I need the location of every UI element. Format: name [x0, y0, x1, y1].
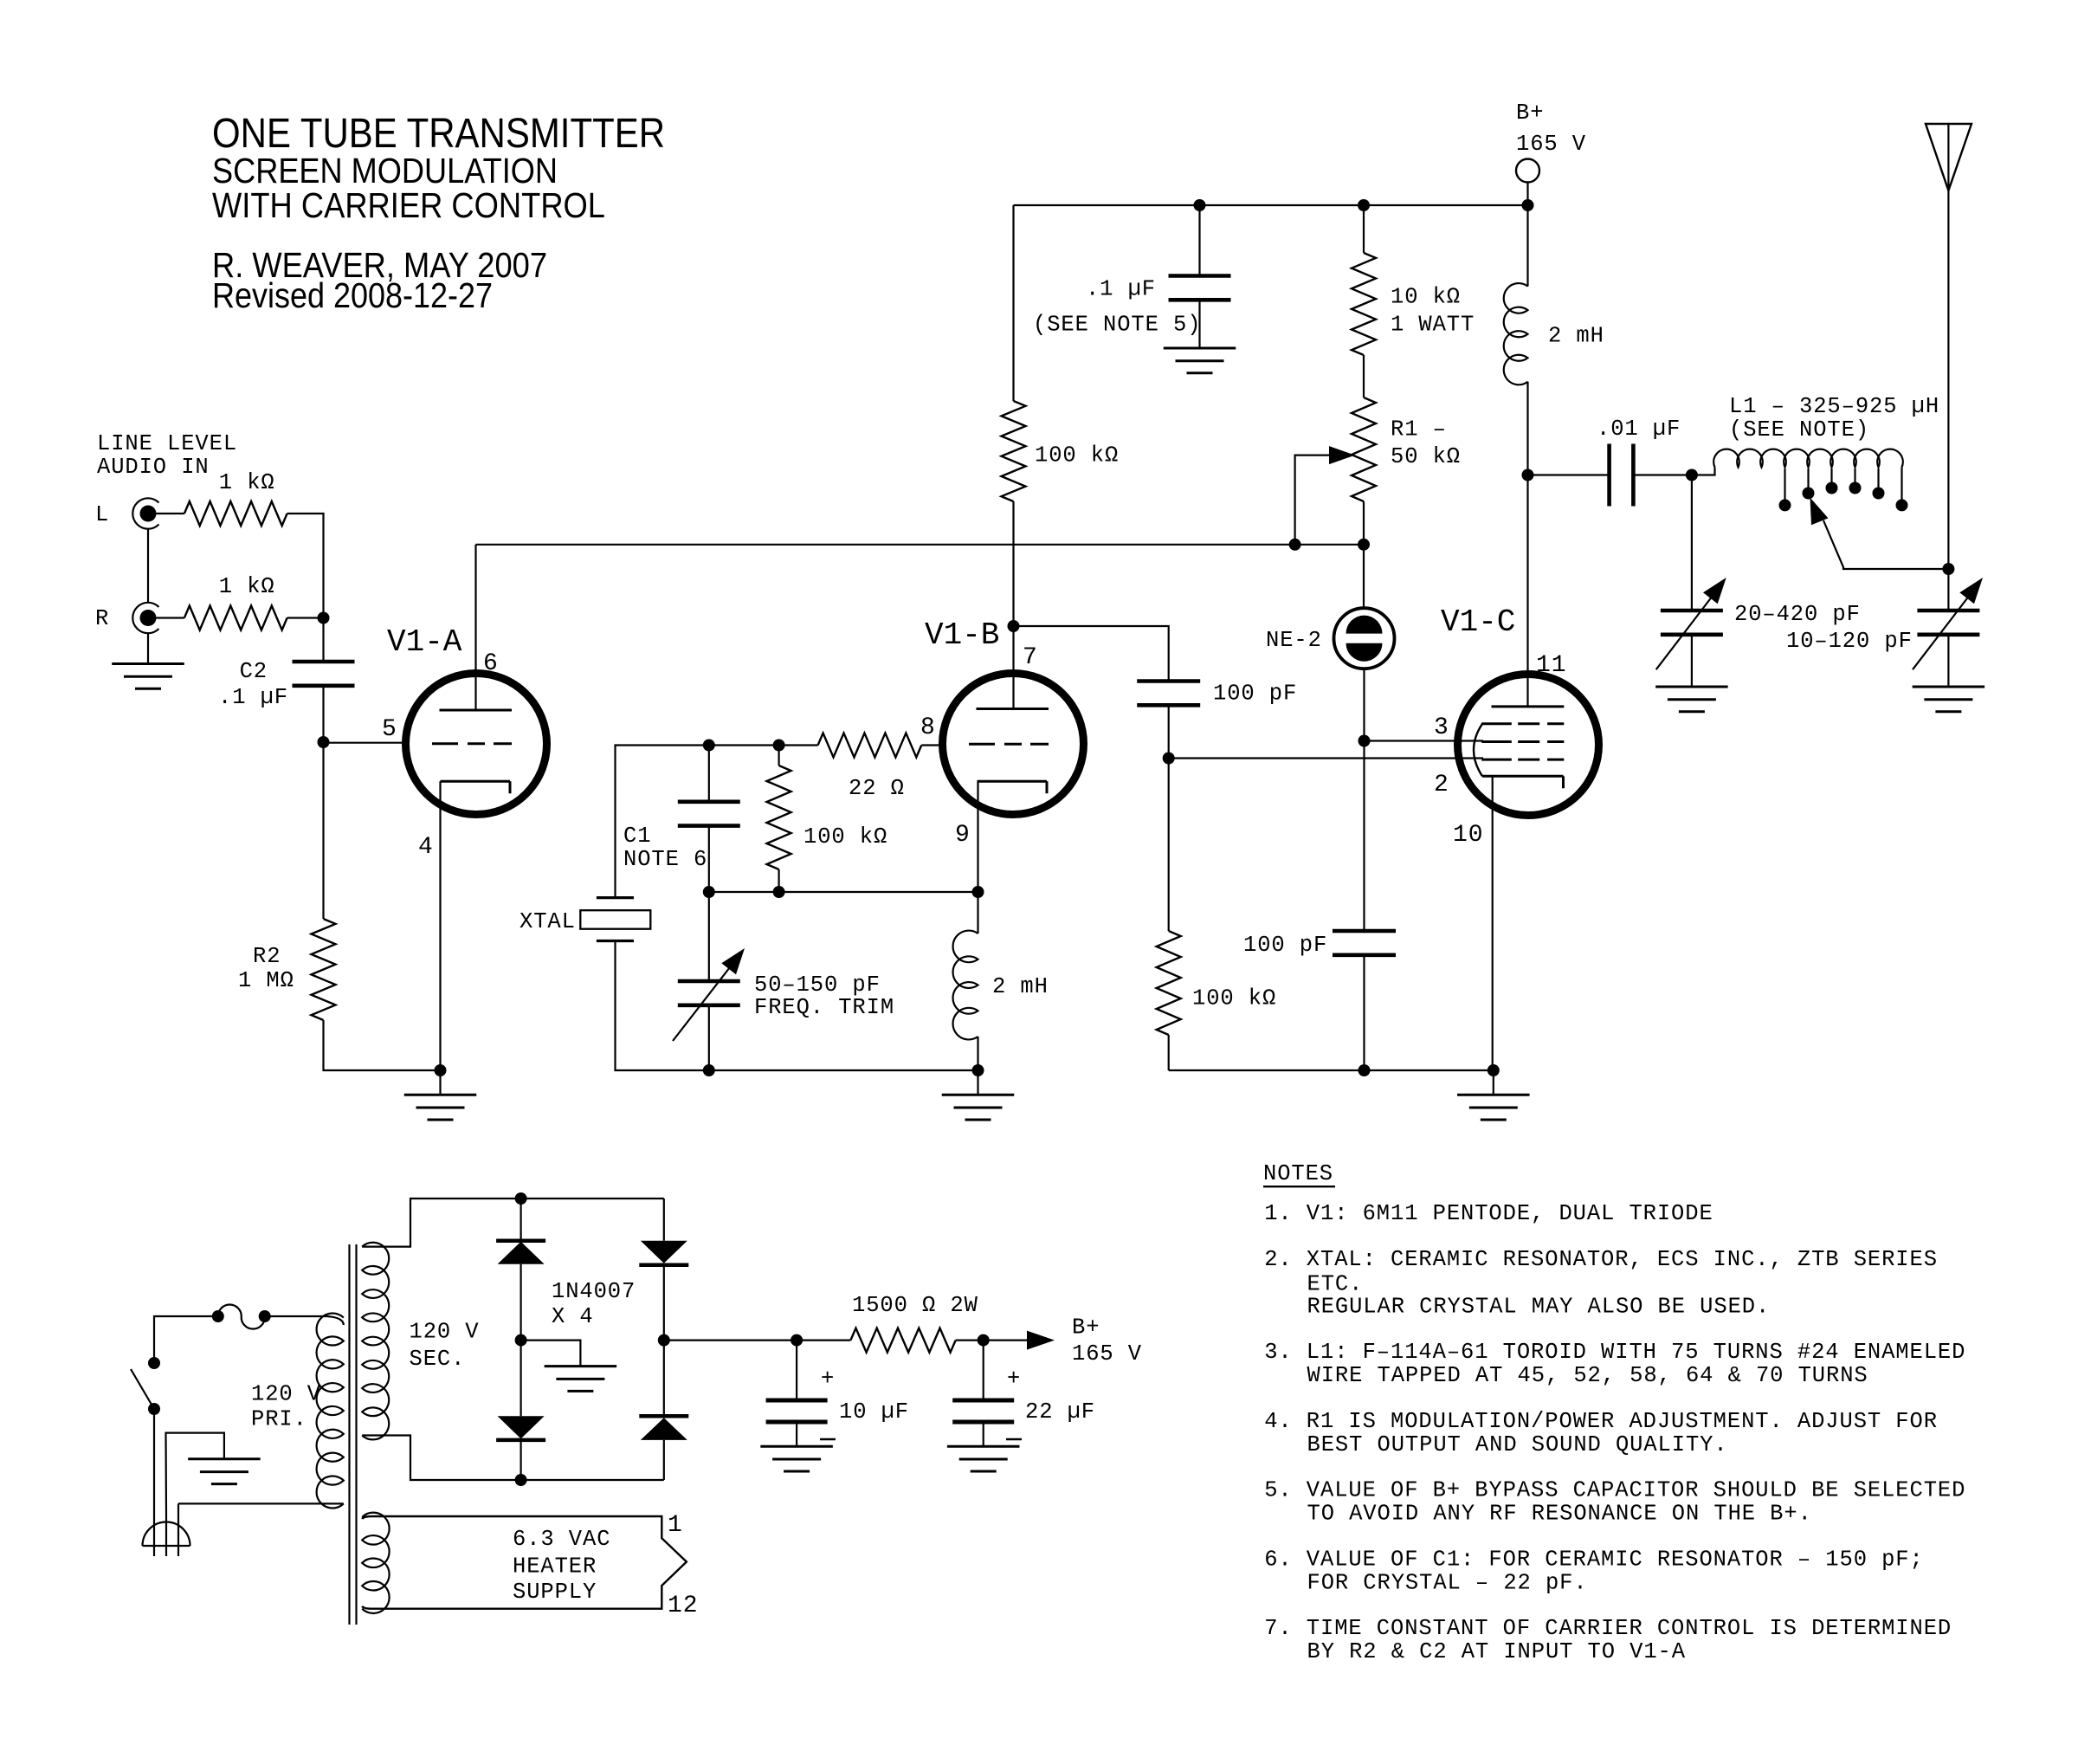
wire junction to R2 — [322, 742, 324, 919]
svg-text:1 kΩ: 1 kΩ — [219, 574, 275, 599]
fuse — [212, 1305, 271, 1329]
svg-text:R1 –: R1 – — [1391, 417, 1447, 443]
tube V1-B grid — [969, 743, 1049, 746]
svg-text:2. XTAL: CERAMIC RESONATOR, EC: 2. XTAL: CERAMIC RESONATOR, ECS INC., ZT… — [1264, 1247, 1938, 1272]
wire 10uF bottom — [796, 1422, 797, 1446]
label B plus output — [1072, 1315, 1142, 1367]
tube V1-B plate — [977, 708, 1049, 710]
diode D1 — [496, 1241, 545, 1264]
tube V1-A envelope — [406, 674, 547, 815]
junction screen cap rail — [1358, 1064, 1371, 1076]
capacitor .01 uF — [1610, 444, 1634, 507]
wire XTAL to rail — [616, 941, 978, 1071]
tube V1-C cathode — [1482, 776, 1564, 788]
label 1500 Ohm 2W — [852, 1293, 978, 1318]
label 120V SEC — [410, 1320, 480, 1373]
junction bridge mid left — [515, 1334, 527, 1347]
pin 7 label — [1023, 644, 1038, 671]
label C2 value — [218, 685, 288, 710]
svg-text:10–120 pF: 10–120 pF — [1786, 629, 1913, 654]
svg-text:1 kΩ: 1 kΩ — [219, 470, 275, 495]
title line 5 — [212, 275, 493, 315]
switch — [131, 1357, 160, 1415]
wire antenna down — [1947, 191, 1949, 611]
wire plug hot to switch — [153, 1409, 155, 1520]
tube V1-C grid row 2 — [1481, 740, 1564, 743]
diode D3 — [639, 1241, 688, 1265]
transformer primary winding — [178, 1314, 344, 1509]
junction 10uF — [791, 1334, 803, 1347]
wire plate to .01uF — [1528, 474, 1610, 475]
svg-text:165 V: 165 V — [1072, 1341, 1142, 1367]
junction V1-A grid — [318, 736, 330, 748]
capacitor C1 — [678, 802, 740, 826]
wire 100k V1-C bottom — [1168, 1035, 1170, 1070]
svg-text:FOR CRYSTAL – 22 pF.: FOR CRYSTAL – 22 pF. — [1307, 1571, 1588, 1596]
wire mid right to 10uF — [664, 1339, 851, 1341]
tube V1-C envelope — [1458, 675, 1599, 816]
wire R1k lower to junction — [287, 617, 324, 618]
label V1-C — [1441, 604, 1515, 640]
svg-text:AUDIO IN: AUDIO IN — [97, 455, 210, 480]
junction pin 2 net — [1163, 753, 1175, 765]
wire V1-B plate to cap — [1014, 626, 1169, 682]
svg-text:C1: C1 — [623, 824, 651, 849]
wire V1-C cathode pin 10 — [1492, 776, 1494, 1070]
wire 10uF top — [796, 1341, 797, 1400]
svg-text:165 V: 165 V — [1516, 132, 1586, 157]
svg-text:L1 – 325–925 µH: L1 – 325–925 µH — [1729, 394, 1939, 419]
svg-text:6: 6 — [483, 650, 499, 677]
junction bridge mid right — [658, 1334, 670, 1347]
wire R2 to ground rail — [324, 1020, 441, 1070]
wire C1 bottom — [708, 826, 710, 892]
inductor 2 mH cathode — [953, 931, 978, 1040]
variable capacitor 50-150 pF — [678, 981, 740, 1005]
resistor 100k feedback — [767, 766, 791, 869]
wire 100k fb top stub — [778, 746, 779, 766]
svg-text:2: 2 — [1434, 772, 1449, 798]
svg-text:7. TIME CONSTANT OF CARRIER CO: 7. TIME CONSTANT OF CARRIER CONTROL IS D… — [1264, 1616, 1952, 1641]
capacitor 100 pF screen — [1333, 931, 1396, 955]
resistor 10k 1W — [1352, 253, 1376, 355]
wire fuse to primary — [265, 1315, 327, 1317]
label 1 kOhm upper — [219, 470, 275, 495]
resistor 22 Ohm — [818, 733, 922, 758]
svg-text:ETC.: ETC. — [1307, 1272, 1364, 1297]
tube V1-C grid row 1 — [1481, 722, 1564, 725]
wire D2 to bottom — [519, 1440, 521, 1480]
pin 11 label — [1536, 652, 1566, 679]
wire V1-C ground stub — [1493, 1070, 1494, 1095]
wire bypass cap bottom — [1198, 300, 1200, 348]
junction B plus entry — [1522, 199, 1534, 211]
diode D2 — [496, 1416, 545, 1440]
pin 6 label — [483, 650, 499, 677]
wire secondary top — [362, 1199, 664, 1247]
junction 100k bottom — [773, 886, 785, 898]
junction 100k top — [773, 740, 785, 752]
pin 3 label — [1434, 714, 1449, 741]
wire trim cap bottom — [708, 1005, 710, 1070]
svg-text:120 V: 120 V — [251, 1381, 321, 1406]
wire V1-B cathode pin 9 — [977, 781, 978, 892]
wire grid junction to V1-A — [324, 742, 405, 744]
junction V1-B plate — [1008, 620, 1020, 632]
wire osc ground stub — [977, 1070, 978, 1095]
pin 9 label — [955, 822, 971, 849]
neon lamp NE-2 — [1334, 608, 1395, 669]
svg-text:R2: R2 — [253, 944, 281, 969]
label 100k V1-C — [1192, 986, 1276, 1011]
tube V1-B envelope — [943, 674, 1084, 815]
svg-text:+: + — [1007, 1367, 1021, 1392]
label 1N4007 X 4 — [552, 1279, 636, 1329]
label 100k osc — [1035, 443, 1119, 468]
wire C1 top — [708, 746, 710, 802]
ground AC safety — [188, 1459, 261, 1484]
svg-text:L: L — [95, 502, 109, 527]
svg-text:.01 µF: .01 µF — [1597, 417, 1681, 442]
svg-text:10: 10 — [1453, 822, 1483, 849]
pin 12 label heater — [668, 1593, 698, 1619]
label 6.3 VAC HEATER SUPPLY — [513, 1527, 610, 1605]
svg-text:11: 11 — [1536, 652, 1566, 679]
wire 22uF top — [983, 1341, 984, 1400]
diode D4 — [639, 1416, 688, 1440]
junction 22uF — [978, 1334, 990, 1347]
terminal B plus — [1516, 159, 1539, 183]
label 2 mH cathode choke — [992, 974, 1049, 999]
junction osc rail — [703, 1064, 715, 1076]
wire jack shells — [147, 529, 149, 603]
wire choke to plate junction — [1526, 382, 1528, 475]
label .01 uF — [1597, 417, 1681, 442]
wire 10k top stub — [1363, 205, 1365, 253]
label R2 value — [238, 968, 294, 993]
svg-text:100 pF: 100 pF — [1243, 933, 1327, 958]
junction L1 input — [1686, 469, 1698, 481]
svg-text:50–150 pF: 50–150 pF — [754, 972, 881, 998]
transformer core — [350, 1244, 357, 1625]
svg-text:22 Ω: 22 Ω — [849, 776, 905, 801]
svg-text:(SEE NOTE 5): (SEE NOTE 5) — [1033, 313, 1201, 338]
label 2 mH plate choke — [1548, 324, 1604, 349]
junction antenna net — [1942, 563, 1954, 575]
ground V1-C — [1457, 1095, 1530, 1120]
resistor 1 kOhm lower — [184, 606, 287, 630]
wire coupling cap to pin2 net — [1168, 705, 1170, 758]
label LINE LEVEL AUDIO IN — [97, 431, 237, 480]
label NE-2 — [1266, 628, 1322, 653]
junction audio mix — [318, 612, 330, 624]
L1 tap 5 — [1873, 468, 1885, 500]
crystal XTAL — [580, 898, 650, 941]
label 100k feedback — [803, 824, 887, 850]
label bypass value — [1086, 277, 1156, 302]
wire secondary bottom — [362, 1436, 664, 1481]
wire V1-C rail — [1169, 1069, 1494, 1071]
svg-text:100 pF: 100 pF — [1213, 682, 1297, 707]
pin 8 label — [920, 714, 936, 741]
wire trim cap top — [708, 892, 710, 981]
wire mid right to D4 — [663, 1341, 665, 1418]
tube V1-C plate — [1492, 705, 1565, 708]
svg-text:+: + — [821, 1367, 835, 1392]
tube V1-C grid bracket — [1474, 724, 1482, 777]
svg-text:1. V1: 6M11 PENTODE, DUAL TRIO: 1. V1: 6M11 PENTODE, DUAL TRIODE — [1264, 1201, 1713, 1226]
svg-text:22 µF: 22 µF — [1025, 1399, 1095, 1425]
ground 22uF — [947, 1446, 1020, 1471]
svg-text:4: 4 — [418, 834, 434, 861]
wire B plus stub — [1526, 183, 1528, 206]
resistor 100k V1-C grid — [1157, 931, 1181, 1035]
svg-text:NOTE 6: NOTE 6 — [623, 847, 707, 872]
capacitor 22 uF — [952, 1400, 1014, 1422]
svg-text:R: R — [95, 606, 109, 631]
svg-text:10 kΩ: 10 kΩ — [1391, 285, 1461, 310]
label 22 uF — [1025, 1399, 1095, 1425]
wire pin 2 — [1169, 757, 1483, 759]
svg-text:NOTES: NOTES — [1263, 1161, 1333, 1186]
variable capacitor 20-420 pF — [1661, 611, 1723, 635]
wire mid left to D2 — [519, 1341, 521, 1417]
svg-text:V1-C: V1-C — [1441, 604, 1515, 640]
junction V1-C rail — [1488, 1064, 1500, 1076]
svg-text:BY R2 & C2 AT INPUT TO V1-A: BY R2 & C2 AT INPUT TO V1-A — [1307, 1639, 1686, 1664]
wire R1 bottom — [1363, 501, 1365, 545]
wire C2 to grid junction — [322, 686, 324, 742]
RCA jack R — [132, 603, 158, 633]
ground audio input — [112, 664, 184, 689]
wire safety ground — [166, 1433, 224, 1515]
wire cathode pin4 — [439, 781, 441, 1070]
svg-text:6. VALUE OF C1: FOR CERAMIC RE: 6. VALUE OF C1: FOR CERAMIC RESONATOR – … — [1264, 1548, 1924, 1573]
label C2 — [240, 659, 268, 684]
tube V1-A grid — [432, 742, 512, 745]
AC plug — [142, 1503, 190, 1556]
title line 1 — [212, 111, 665, 157]
svg-text:REGULAR CRYSTAL MAY ALSO BE US: REGULAR CRYSTAL MAY ALSO BE USED. — [1307, 1295, 1771, 1320]
resistor 1500 Ohm — [850, 1328, 955, 1353]
svg-text:.1 µF: .1 µF — [1086, 277, 1156, 302]
wire V1-C plate pin 11 — [1526, 475, 1528, 707]
transformer secondary winding — [362, 1243, 389, 1440]
ground tuning cap — [1655, 687, 1728, 712]
capacitor B plus bypass — [1169, 276, 1231, 300]
wire 100k osc bottom — [1012, 501, 1014, 626]
junction osc rail right — [972, 1064, 984, 1076]
svg-text:5. VALUE OF B+ BYPASS CAPACITO: 5. VALUE OF B+ BYPASS CAPACITOR SHOULD B… — [1264, 1478, 1965, 1503]
ground B plus bypass — [1164, 348, 1236, 373]
svg-text:8: 8 — [920, 714, 936, 741]
wire top rail — [1014, 204, 1528, 206]
label 100 pF lower — [1243, 933, 1327, 958]
label R — [95, 606, 109, 631]
wire 1500 to 22uF — [956, 1339, 984, 1341]
tube V1-A plate — [440, 709, 513, 712]
wire D1 to mid left — [519, 1264, 521, 1341]
svg-text:2 mH: 2 mH — [1548, 324, 1604, 349]
junction pin9 net — [972, 886, 984, 898]
svg-text:C2: C2 — [240, 659, 268, 684]
title line 3 — [212, 185, 605, 225]
wire jack ground stub — [147, 633, 149, 664]
label C1 — [623, 824, 707, 872]
svg-text:5: 5 — [382, 716, 397, 743]
svg-text:.1 µF: .1 µF — [218, 685, 288, 710]
wire bypass cap top — [1198, 205, 1200, 276]
wire D4 to bottom — [663, 1440, 665, 1480]
svg-text:1 MΩ: 1 MΩ — [238, 968, 294, 993]
tube V1-C grid row 3 — [1481, 759, 1564, 761]
wire antenna cap to ground — [1947, 635, 1949, 687]
wire NE-2 to cap — [1363, 741, 1365, 932]
transformer heater winding — [362, 1513, 389, 1613]
svg-text:10 µF: 10 µF — [839, 1399, 909, 1425]
RCA jack L — [132, 498, 158, 528]
svg-text:120 V: 120 V — [410, 1320, 480, 1345]
svg-text:V1-B: V1-B — [925, 617, 999, 653]
label 100 pF upper — [1213, 682, 1297, 707]
svg-text:B+: B+ — [1072, 1315, 1100, 1341]
svg-text:1 WATT: 1 WATT — [1391, 313, 1475, 338]
L1 tap 1 — [1779, 468, 1791, 511]
capacitor 22uF minus — [1006, 1438, 1022, 1440]
svg-text:SUPPLY: SUPPLY — [513, 1580, 597, 1605]
label 120V PRI — [251, 1381, 321, 1431]
label V1-B — [925, 617, 999, 653]
wire NE-2 top — [1363, 545, 1365, 609]
svg-text:NE-2: NE-2 — [1266, 628, 1322, 653]
svg-text:100 kΩ: 100 kΩ — [1192, 986, 1276, 1011]
label L — [95, 502, 109, 527]
junction plate output — [1522, 469, 1534, 481]
svg-text:3: 3 — [1434, 714, 1449, 741]
L1 tap 2 — [1803, 468, 1815, 500]
wire tuning cap to ground — [1691, 635, 1693, 687]
wire L1 junction to tuning cap — [1691, 475, 1693, 611]
R1 wiper arrow — [1295, 446, 1355, 545]
L1 end tap — [1896, 468, 1908, 512]
resistor R2 1M — [312, 919, 336, 1020]
svg-text:X 4: X 4 — [552, 1304, 594, 1329]
wire V1-B grid net — [616, 746, 818, 898]
capacitor 10 uF — [766, 1400, 828, 1422]
wire L to R1k — [157, 513, 184, 514]
antenna — [1926, 124, 1972, 191]
svg-text:4. R1 IS MODULATION/POWER ADJU: 4. R1 IS MODULATION/POWER ADJUSTMENT. AD… — [1264, 1409, 1938, 1434]
wire bridge right top — [663, 1199, 665, 1241]
resistor 1 kOhm upper — [184, 501, 287, 526]
tuning cap arrow — [1656, 578, 1726, 669]
svg-text:6.3 VAC: 6.3 VAC — [513, 1527, 610, 1552]
label 1 kOhm lower — [219, 574, 275, 599]
heater supply box — [362, 1516, 687, 1609]
wire switch to fuse — [154, 1316, 218, 1363]
potentiometer R1 50k — [1352, 397, 1376, 501]
wire V1-A plate pin 6 — [474, 545, 476, 710]
wire junction to C2 — [322, 618, 324, 662]
svg-text:WIRE TAPPED AT 45, 52, 58, 64: WIRE TAPPED AT 45, 52, 58, 64 & 70 TURNS — [1307, 1363, 1868, 1388]
wire pin2 net to 100k — [1168, 759, 1170, 932]
wire choke to rail — [977, 1037, 978, 1070]
ground bridge center — [545, 1367, 617, 1392]
label R2 — [253, 944, 281, 969]
L1 tap 4 — [1849, 468, 1862, 494]
title line 2 — [212, 151, 558, 191]
wire pin9 to choke — [977, 892, 978, 934]
svg-text:1: 1 — [668, 1512, 683, 1539]
label bypass note — [1033, 313, 1201, 338]
label 10-120 pF — [1786, 629, 1913, 654]
svg-text:3. L1: F–114A–61 TOROID WITH 7: 3. L1: F–114A–61 TOROID WITH 75 TURNS #2… — [1264, 1340, 1965, 1365]
junction bridge top — [515, 1192, 527, 1205]
junction wiper net — [1289, 539, 1301, 551]
svg-text:100 kΩ: 100 kΩ — [803, 824, 887, 850]
antenna cap arrow — [1913, 578, 1983, 669]
svg-text:TO AVOID ANY RF RESONANCE ON T: TO AVOID ANY RF RESONANCE ON THE B+. — [1307, 1502, 1812, 1527]
capacitor 10uF minus — [820, 1438, 836, 1440]
wire 22 Ohm to V1-B pin 8 — [921, 744, 941, 746]
inductor 2 mH plate choke — [1504, 283, 1528, 384]
junction ground rail left — [435, 1064, 447, 1076]
wire 100k osc top — [1012, 205, 1014, 401]
ground V1-A — [404, 1095, 477, 1120]
junction bridge bottom — [515, 1474, 527, 1486]
capacitor 100 pF coupling — [1137, 682, 1200, 706]
ground antenna cap — [1913, 687, 1985, 712]
label 10 uF — [839, 1399, 909, 1425]
label plus 22uF — [1007, 1367, 1021, 1392]
wire pin 3 — [1365, 740, 1484, 741]
wire 22uF bottom — [983, 1422, 984, 1446]
title line 4 — [212, 245, 547, 285]
svg-text:1N4007: 1N4007 — [552, 1279, 636, 1304]
junction 10k top — [1358, 199, 1370, 211]
svg-text:50 kΩ: 50 kΩ — [1391, 444, 1461, 469]
wire bridge left top — [519, 1199, 521, 1242]
wire screen cap bottom — [1363, 955, 1365, 1070]
pin 10 label — [1453, 822, 1483, 849]
wire 100k fb bottom stub — [778, 869, 779, 892]
pin 5 label — [382, 716, 397, 743]
tube V1-B cathode — [978, 781, 1048, 793]
label XTAL — [519, 909, 576, 934]
svg-text:(SEE NOTE): (SEE NOTE) — [1729, 417, 1869, 443]
wire 10k to R1 — [1363, 355, 1365, 397]
wire ground stub left — [439, 1070, 441, 1095]
svg-text:V1-A: V1-A — [387, 624, 462, 660]
svg-text:Revised 2008-12-27: Revised 2008-12-27 — [212, 275, 493, 315]
trim cap arrow — [673, 948, 745, 1041]
svg-text:BEST OUTPUT AND SOUND QUALITY.: BEST OUTPUT AND SOUND QUALITY. — [1307, 1432, 1728, 1457]
junction R1 bottom — [1358, 539, 1370, 551]
junction C1 top — [703, 740, 715, 752]
svg-text:2 mH: 2 mH — [992, 974, 1049, 999]
svg-text:1500 Ω 2W: 1500 Ω 2W — [852, 1293, 978, 1318]
svg-text:100 kΩ: 100 kΩ — [1035, 443, 1119, 468]
junction bypass cap — [1194, 199, 1206, 211]
svg-text:HEATER: HEATER — [513, 1554, 597, 1580]
wire B plus to choke — [1526, 205, 1528, 287]
wire V1-A plate to wiper net — [476, 544, 1365, 546]
wire osc bottom net — [709, 891, 978, 893]
svg-text:9: 9 — [955, 822, 971, 849]
wire V1-B plate pin 7 — [1012, 626, 1014, 709]
tube V1-A cathode — [441, 781, 511, 793]
notes text — [1264, 1201, 1965, 1664]
